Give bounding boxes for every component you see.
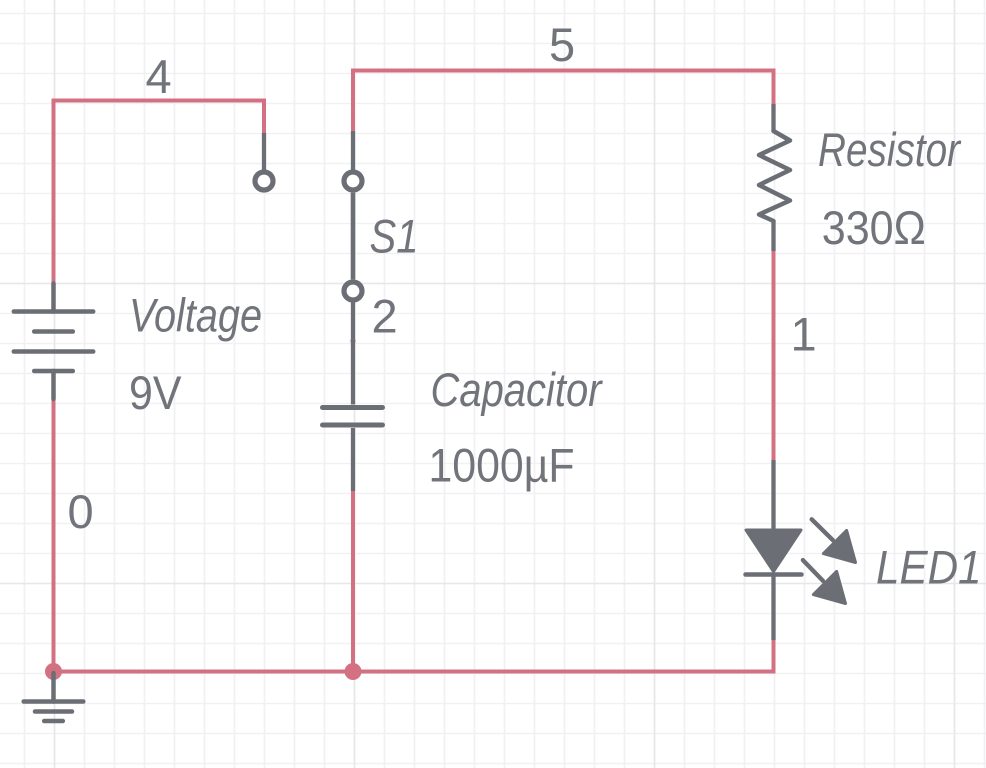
LED light arrow 2 — [803, 560, 846, 603]
LED light arrow 1 — [812, 519, 856, 562]
svg-text:1000µF: 1000µF — [429, 439, 575, 492]
switch common terminal circle — [344, 282, 362, 300]
switch top terminal circle — [344, 172, 362, 190]
svg-text:1: 1 — [791, 307, 817, 360]
wire net 1: resistor bottom to LED top — [772, 250, 776, 461]
svg-text:2: 2 — [372, 289, 398, 342]
resistor zigzag body — [759, 131, 790, 221]
switch pole lead from net 5 — [351, 131, 355, 170]
resistor R1 lead top — [771, 104, 775, 131]
svg-text:4: 4 — [146, 50, 172, 103]
wire net 0: ground net (battery - , capacitor bottom, LED cathode, bottom rail) — [54, 399, 774, 672]
svg-text:330Ω: 330Ω — [822, 201, 926, 254]
svg-text:LED1: LED1 — [876, 541, 982, 594]
switch lever (closed to top terminal) — [351, 193, 356, 280]
svg-text:Voltage: Voltage — [129, 288, 262, 341]
ground symbol — [24, 673, 84, 721]
LED triangle — [746, 530, 801, 572]
LED cathode bar — [746, 572, 802, 577]
LED cathode lead — [771, 575, 775, 641]
junction: capacitor bottom on bottom rail — [345, 663, 362, 680]
battery V1 (Voltage 9V) — [14, 284, 93, 400]
capacitor plate bottom — [323, 423, 383, 428]
wire net 2: switch bottom lead pin marker — [350, 338, 355, 343]
svg-text:Capacitor: Capacitor — [431, 363, 604, 416]
LED1 anode lead — [771, 460, 775, 530]
svg-text:5: 5 — [549, 18, 575, 71]
svg-text:S1: S1 — [370, 209, 419, 262]
resistor lead bottom — [771, 221, 775, 251]
capacitor plate top — [323, 405, 383, 410]
switch throw terminal circle (open) — [255, 172, 273, 190]
svg-text:9V: 9V — [129, 366, 182, 419]
svg-text:0: 0 — [68, 485, 94, 538]
svg-text:Resistor: Resistor — [818, 123, 962, 176]
wire net 5: switch top up, across to resistor top — [353, 71, 774, 132]
capacitor C1 leads — [351, 302, 355, 491]
junction: battery-/ground/bottom rail — [45, 663, 62, 680]
wire net 4: battery + up, across to switch throw — [54, 101, 265, 285]
switch S1 (SPDT) : throw terminal from net 4 — [262, 133, 266, 170]
